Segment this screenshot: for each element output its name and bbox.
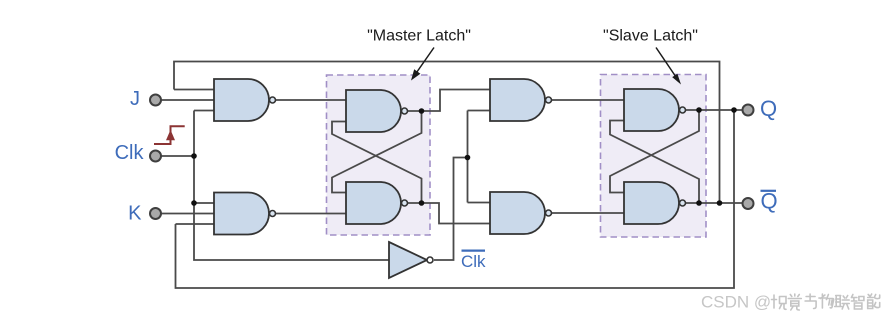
wire top-feedback into G1 pin1 <box>174 89 214 91</box>
wire Clk input <box>161 155 194 157</box>
wire G7 output to Q <box>685 109 743 111</box>
wire K input <box>161 213 214 215</box>
wire slave cross A: G7 out to G8 pin1 <box>610 110 699 193</box>
NAND gate G8 <box>624 182 686 224</box>
junction Clk to G2 <box>191 200 197 206</box>
terminal Q <box>743 105 754 116</box>
watermark CJK glyphs <box>772 294 880 310</box>
wire master cross A: G3 out to G4 pin1 <box>332 111 422 193</box>
slave latch box <box>601 75 707 238</box>
wire G2 output to G4 <box>276 213 347 215</box>
label Qbar <box>761 189 778 214</box>
svg-text:Clk: Clk <box>115 142 145 164</box>
wire G6 output to G8 <box>551 212 624 214</box>
clock edge symbol <box>154 126 185 144</box>
wire Q feedback bottom <box>176 110 735 288</box>
terminal Qbar <box>743 198 754 209</box>
svg-text:K: K <box>128 203 142 225</box>
svg-text:J: J <box>130 88 140 110</box>
wire Clk to G1 pin3 <box>194 110 214 112</box>
wire Qbar feedback top <box>174 62 720 204</box>
wire J input <box>161 99 214 101</box>
NAND gate G5 <box>490 79 552 121</box>
wire G1 output to G3 <box>276 99 347 101</box>
NAND gate G2 <box>214 193 276 235</box>
wire slave cross B: G8 out to G7 pin2 <box>610 121 699 204</box>
junction G4 output <box>419 200 425 206</box>
svg-text:"Master Latch": "Master Latch" <box>367 28 471 45</box>
svg-text:Q: Q <box>760 96 777 121</box>
wire G4 output to G6 <box>407 203 490 224</box>
junction Clk node <box>191 153 197 159</box>
label Clkbar <box>461 251 486 271</box>
wire Clkbar vertical <box>467 111 469 203</box>
svg-text:Q: Q <box>761 189 778 214</box>
arrow to master latch <box>411 48 434 81</box>
terminal J <box>150 95 161 106</box>
wire G5 output to G7 <box>551 99 624 101</box>
inverter U1 Clk <box>389 242 433 278</box>
wire master cross B: G4 out to G3 pin2 <box>332 122 422 204</box>
wire Clk to G2 pin1 <box>194 202 214 204</box>
junction G3 output <box>419 108 425 114</box>
master latch box <box>327 75 431 235</box>
terminal K <box>150 208 161 219</box>
wire G3 output to G5 <box>407 90 490 112</box>
wire inverter output Clkbar <box>434 158 468 261</box>
svg-text:"Slave Latch": "Slave Latch" <box>603 28 698 45</box>
wire G8 output to Qbar <box>685 202 743 204</box>
wire Clkbar to G6 pin1 <box>468 202 491 204</box>
svg-text:Clk: Clk <box>461 252 486 271</box>
junction Clkbar node <box>465 155 471 161</box>
wire bottom-feedback into G2 pin3 <box>176 223 215 225</box>
wire Clkbar to G5 pin2 <box>468 110 491 112</box>
NAND gate G3 <box>346 90 408 132</box>
junction G7 output cross <box>696 107 702 113</box>
NAND gate G1 <box>214 79 276 121</box>
junction Q feedback <box>731 107 737 113</box>
wire Clk vertical bus <box>194 111 389 261</box>
terminal Clk <box>150 151 161 162</box>
NAND gate G6 <box>490 192 552 234</box>
junction Qbar feedback <box>717 200 723 206</box>
arrow to slave latch <box>656 48 681 85</box>
NAND gate G4 <box>346 182 408 224</box>
svg-text:CSDN @: CSDN @ <box>701 293 771 312</box>
junction G8 output cross <box>696 200 702 206</box>
NAND gate G7 <box>624 89 686 131</box>
